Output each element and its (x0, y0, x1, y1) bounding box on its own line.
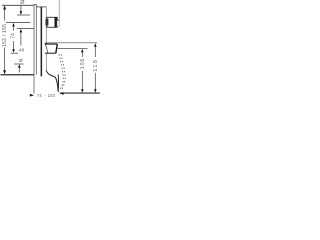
svg-text:74: 74 (10, 33, 16, 39)
svg-text:48: 48 (19, 47, 25, 53)
svg-text:-: - (44, 93, 46, 98)
svg-text:118: 118 (93, 59, 99, 72)
svg-text:74: 74 (37, 93, 42, 98)
svg-text:153 / 155: 153 / 155 (2, 24, 8, 47)
svg-text:106: 106 (80, 58, 86, 70)
svg-text:Ø: Ø (19, 58, 23, 64)
svg-text:103: 103 (48, 93, 56, 98)
